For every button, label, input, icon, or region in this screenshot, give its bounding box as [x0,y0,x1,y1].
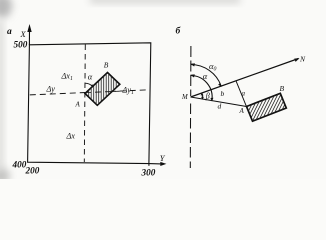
beta arc upper arrowhead [201,92,204,95]
alpha arc north arrowhead [190,74,195,77]
Y axis extension [149,163,162,165]
building rectangle B (hatched, right) [247,93,287,121]
svg-text:N: N [299,55,306,64]
alpha0 arc MN arrowhead [218,83,222,87]
Y axis arrowhead [160,162,166,166]
arc beta between MN and MA [201,93,204,99]
svg-text:B: B [280,84,285,93]
hatching of building AB [86,70,119,108]
X axis shaft above box [28,28,30,45]
svg-text:Δx: Δx [66,132,76,141]
svg-text:α: α [203,71,208,81]
dashed line trace across building [85,91,120,92]
line MN [191,59,299,98]
beta arc lower arrowhead [201,97,204,100]
scan shading top edge [90,0,240,3]
svg-text:α: α [88,72,93,82]
alpha arc arrowhead [91,84,93,87]
svg-text:X: X [20,29,27,39]
svg-text:b: b [221,89,225,98]
line cA perpendicular [236,81,248,110]
scan shading bottom-left corner [0,168,10,184]
right edge spur below axis [148,164,150,166]
svg-text:300: 300 [141,168,156,178]
line MA [191,97,247,107]
svg-text:200: 200 [25,166,40,176]
grid box frame [28,43,151,164]
svg-text:A: A [239,107,245,115]
X axis arrowhead [27,24,31,32]
svg-text:Δy: Δy [46,85,56,94]
hatching of right building [232,90,298,126]
arc alpha0 (bearing of MN) [191,65,222,87]
scan shading left edge [0,20,3,170]
svg-text:400: 400 [12,160,27,170]
svg-text:а: а [7,27,12,37]
vertical dashed meridian above M [190,46,192,96]
svg-text:B: B [104,61,109,70]
svg-text:d: d [218,102,222,111]
svg-text:500: 500 [14,40,28,50]
scan shading top-left corner [0,0,12,18]
alpha arc MA arrowhead [210,98,213,102]
angle alpha arc at A [85,83,92,86]
alpha0 arc north arrowhead [190,63,195,66]
svg-text:β: β [205,92,210,101]
svg-text:M: M [181,94,188,101]
arc alpha (bearing of MA) [191,76,213,101]
N arrowhead [294,58,299,62]
vertical dashed meridian below M [189,104,191,169]
building rectangle AB (hatched) [85,73,120,106]
vertical dashed abscissa line [84,45,85,163]
svg-text:a: a [242,90,246,98]
scan background [0,0,326,179]
horizontal dashed ordinate line [30,90,149,95]
svg-text:A: A [75,101,81,109]
